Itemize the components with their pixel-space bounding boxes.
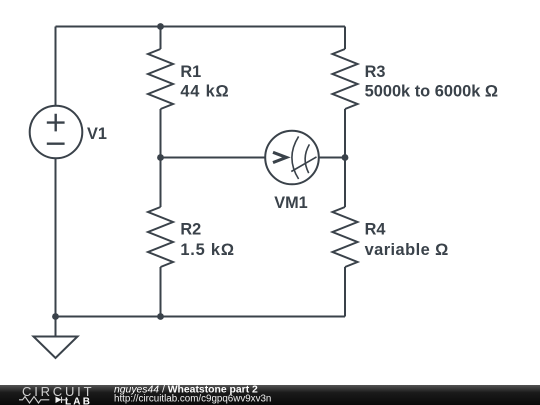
VM1 polarity chevron [273, 152, 286, 162]
ground lead [55, 317, 57, 337]
node dot bottom left [52, 313, 59, 320]
wire right rail mid [344, 109, 346, 207]
logo resistor squiggle [19, 397, 49, 403]
resistor R1 [148, 49, 173, 109]
svg-text:variable Ω: variable Ω [365, 241, 449, 259]
V1 minus sign [47, 142, 65, 144]
ground triangle [34, 337, 78, 359]
svg-text:R3: R3 [365, 63, 386, 81]
svg-text:1.5 kΩ: 1.5 kΩ [180, 241, 234, 259]
svg-text:R1: R1 [180, 63, 201, 81]
resistor R4 [333, 207, 358, 267]
node dot middle [157, 154, 164, 161]
wire middle horizontal left [161, 157, 266, 159]
resistor R2 [148, 207, 173, 267]
VM1 needle [291, 157, 316, 172]
V1 plus sign [47, 114, 65, 132]
VM1 scale arc outer [292, 136, 299, 179]
voltmeter VM1 [265, 131, 319, 185]
svg-text:R2: R2 [180, 220, 201, 238]
logo diode [56, 397, 62, 403]
svg-text:44 kΩ: 44 kΩ [180, 83, 229, 101]
svg-text:5000k to 6000k Ω: 5000k to 6000k Ω [365, 83, 498, 101]
voltage source V1 [30, 106, 83, 159]
wire left rail upper [55, 27, 57, 106]
resistor R3 [333, 49, 358, 109]
wire middle branch top lead [160, 27, 162, 50]
node dot bottom middle [157, 313, 164, 320]
wire bottom rail [56, 316, 346, 318]
wire right rail top lead [344, 27, 346, 50]
wire left rail lower [55, 158, 57, 316]
wire top rail [56, 26, 346, 28]
svg-text:http://circuitlab.com/c9gpq6wv: http://circuitlab.com/c9gpq6wv9xv3n [114, 394, 271, 405]
node dot top [157, 23, 164, 30]
wire middle branch bottom lead [160, 267, 162, 317]
svg-text:V1: V1 [87, 125, 107, 143]
wire middle horizontal right [319, 157, 345, 159]
svg-text:R4: R4 [365, 220, 386, 238]
VM1 scale arc inner [305, 144, 309, 173]
wire middle branch mid [160, 109, 162, 207]
node dot right middle [342, 154, 349, 161]
svg-text:VM1: VM1 [274, 194, 307, 212]
svg-text:LAB: LAB [65, 397, 92, 405]
wire right rail bottom lead [344, 267, 346, 317]
